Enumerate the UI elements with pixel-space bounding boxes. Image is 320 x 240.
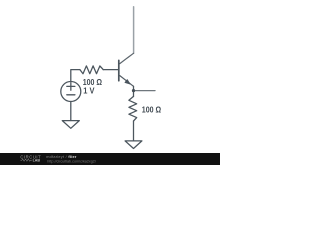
resistor R2 — [129, 96, 137, 121]
wire base — [103, 69, 118, 71]
voltage source V1 — [61, 82, 81, 102]
wire emitter vertical — [133, 86, 135, 96]
svg-text:1 V: 1 V — [83, 87, 95, 96]
transistor Q1 — [119, 53, 134, 86]
svg-text:100 Ω: 100 Ω — [142, 106, 161, 115]
node emitter junction — [132, 89, 135, 92]
resistor R1 — [80, 66, 103, 74]
wire R2-bottom — [133, 121, 135, 141]
logo CircuitLab — [20, 154, 41, 162]
ground G1 — [62, 121, 79, 129]
svg-text:http://circuitlab.com/c/ka2xg2: http://circuitlab.com/c/ka2xg2/ — [47, 159, 97, 163]
ground G2 — [125, 141, 142, 149]
wire source-top — [71, 70, 80, 82]
wire collector vertical — [133, 7, 135, 54]
wire emitter right — [134, 90, 156, 92]
svg-text:LAB: LAB — [33, 159, 41, 163]
wire source-bottom — [70, 102, 72, 121]
watermark bar — [0, 153, 220, 165]
